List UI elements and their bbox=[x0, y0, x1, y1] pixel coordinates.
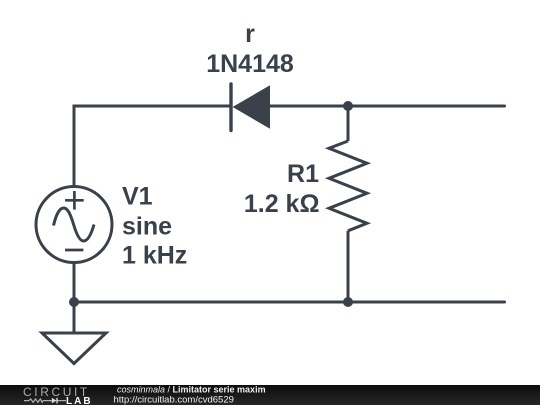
voltage source V1 circle bbox=[36, 187, 112, 263]
svg-text:http://circuitlab.com/cvd6529: http://circuitlab.com/cvd6529 bbox=[114, 395, 234, 405]
diode r cathode bar bbox=[229, 84, 232, 131]
footer bar bbox=[0, 385, 540, 405]
node: junction bottom rail / R1 bbox=[343, 297, 353, 307]
svg-text:LAB: LAB bbox=[66, 396, 93, 405]
svg-text:V1: V1 bbox=[122, 183, 153, 211]
node: junction at V1 bottom bbox=[69, 297, 79, 307]
svg-text:cosminmala / Limitator serie m: cosminmala / Limitator serie maxim bbox=[117, 385, 266, 395]
logo resistor zigzag bbox=[29, 399, 43, 402]
node: junction top rail / R1 bbox=[343, 101, 353, 111]
logo schematic wire bbox=[24, 400, 66, 402]
V1 minus sign bbox=[65, 249, 83, 252]
resistor R1 top lead bbox=[347, 106, 350, 141]
svg-text:R1: R1 bbox=[287, 160, 319, 188]
V1 sine symbol bbox=[54, 208, 95, 241]
svg-text:1N4148: 1N4148 bbox=[206, 50, 294, 78]
resistor R1 bottom lead bbox=[347, 231, 350, 302]
wire: diode anode to right edge (top rail) bbox=[269, 105, 505, 108]
wire: bottom rail bbox=[74, 301, 505, 304]
svg-text:sine: sine bbox=[122, 213, 172, 241]
wire: V1 bottom lead to bottom rail bbox=[73, 262, 76, 302]
ground symbol bbox=[42, 333, 106, 364]
diode r triangle (anode, pointing left) bbox=[233, 85, 270, 129]
wire: ground lead bbox=[73, 302, 76, 333]
resistor R1 zigzag bbox=[329, 141, 367, 231]
svg-text:r: r bbox=[245, 20, 255, 48]
svg-text:1.2 kΩ: 1.2 kΩ bbox=[244, 190, 320, 218]
svg-text:1 kHz: 1 kHz bbox=[122, 242, 187, 270]
wire: V1 top lead up and across to diode cathode bbox=[74, 106, 230, 187]
V1 plus sign bbox=[65, 191, 84, 210]
logo diode bbox=[52, 398, 57, 404]
